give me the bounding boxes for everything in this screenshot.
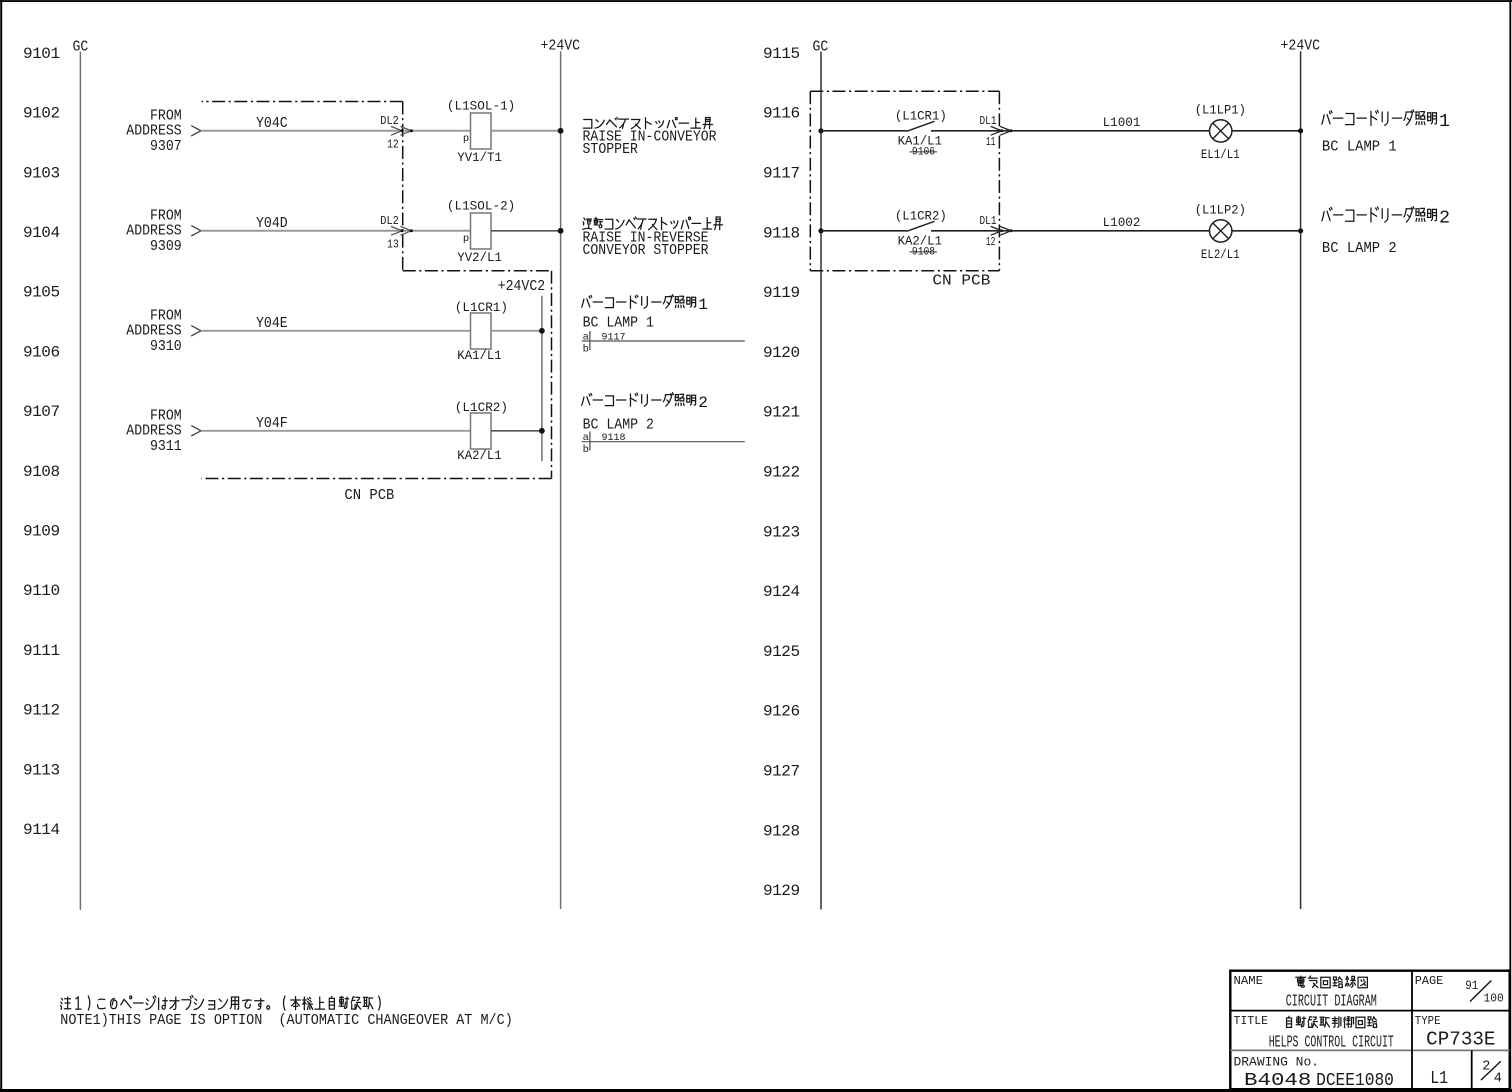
- svg-text:1: 1: [698, 296, 708, 314]
- svg-text:100: 100: [1484, 993, 1504, 1006]
- svg-text:CONVEYOR STOPPER: CONVEYOR STOPPER: [583, 242, 709, 259]
- svg-text:9307: 9307: [150, 138, 182, 155]
- svg-text:4: 4: [1494, 1072, 1502, 1087]
- pin DL1 11 connector crossing rung 9116: [980, 114, 1013, 149]
- svg-text:9112: 9112: [23, 702, 60, 720]
- lamp EL1/L1 (L1LP1): [1195, 104, 1246, 163]
- svg-text:91: 91: [1465, 978, 1478, 993]
- wire rung 9116 to +24VC rail: [1232, 130, 1300, 132]
- svg-text:BC LAMP 2: BC LAMP 2: [1322, 240, 1397, 257]
- svg-text:9103: 9103: [23, 164, 60, 182]
- dash-dot box CN PCB right: [810, 91, 999, 271]
- svg-text:9110: 9110: [23, 582, 60, 600]
- svg-text:9129: 9129: [763, 882, 800, 900]
- svg-text:9123: 9123: [763, 523, 800, 541]
- svg-text:DRAWING No.: DRAWING No.: [1234, 1055, 1320, 1069]
- svg-text:(L1LP2): (L1LP2): [1195, 204, 1246, 218]
- junction rung 9118 at +24VC rail: [1298, 228, 1303, 233]
- svg-text:1: 1: [1439, 111, 1450, 132]
- svg-text:9310: 9310: [150, 338, 182, 355]
- wire rung 9118 from GC rail: [821, 230, 907, 232]
- rail +24VC2: [541, 296, 543, 461]
- svg-text:+24VC2: +24VC2: [498, 278, 546, 295]
- svg-text:(L1CR2): (L1CR2): [895, 209, 947, 223]
- svg-text:Y04C: Y04C: [256, 115, 288, 132]
- svg-text:PAGE: PAGE: [1415, 974, 1444, 988]
- relay coil KA1/L1 (L1CR1): [455, 301, 508, 363]
- svg-text:9117: 9117: [763, 165, 800, 183]
- svg-text:9108: 9108: [912, 247, 935, 259]
- cross-reference BC LAMP 2 with contacts a 9118 b: [582, 393, 745, 456]
- svg-text:2: 2: [1439, 208, 1450, 229]
- svg-text:9124: 9124: [763, 583, 800, 601]
- wire Y04E rung 9106: [201, 315, 471, 332]
- title block NAME cell: CIRCUIT DIAGRAM: [1234, 974, 1377, 1011]
- svg-text:9121: 9121: [763, 404, 800, 422]
- rung 9106 FROM ADDRESS 9310 source arrow: [126, 307, 201, 355]
- svg-text:Y04E: Y04E: [256, 315, 288, 332]
- rail +24VC right: [1300, 51, 1302, 909]
- svg-text:13: 13: [387, 238, 399, 252]
- svg-text:DL1: DL1: [980, 214, 997, 228]
- svg-text:(L1SOL-1): (L1SOL-1): [447, 99, 515, 113]
- svg-text:9118: 9118: [763, 224, 800, 242]
- dash-dot boundary CN PCB left (staircase): [202, 102, 552, 479]
- svg-text:TITLE: TITLE: [1234, 1014, 1269, 1028]
- wire rung 9106 to +24VC2 rail: [491, 330, 542, 332]
- svg-text:9119: 9119: [763, 284, 800, 302]
- svg-text:STOPPER: STOPPER: [583, 141, 638, 158]
- svg-text:9113: 9113: [23, 761, 60, 779]
- svg-text:9128: 9128: [763, 822, 800, 840]
- rail GC left: [79, 52, 81, 910]
- svg-text:9106: 9106: [912, 147, 935, 159]
- svg-text:9115: 9115: [763, 45, 800, 63]
- svg-text:9111: 9111: [23, 642, 60, 660]
- svg-text:9120: 9120: [763, 344, 800, 362]
- svg-text:9102: 9102: [23, 105, 60, 123]
- svg-text:(L1CR2): (L1CR2): [455, 401, 508, 415]
- svg-text:9125: 9125: [763, 643, 800, 661]
- contact KA2/L1 (L1CR2) NO with reference 9108: [895, 209, 947, 258]
- junction rung 9118 at GC rail: [818, 228, 823, 233]
- junction rung 9116 at +24VC rail: [1298, 128, 1303, 133]
- pin DL2 12 connector crossing rung 9102: [380, 114, 413, 152]
- svg-text:KA2/L1: KA2/L1: [457, 449, 501, 463]
- solenoid YV1/T1 (L1SOL-1): [447, 99, 515, 164]
- svg-text:9104: 9104: [23, 224, 60, 242]
- svg-text:9127: 9127: [763, 763, 800, 781]
- svg-text:2: 2: [698, 394, 708, 412]
- svg-text:9311: 9311: [150, 438, 182, 455]
- svg-text:YV2/L1: YV2/L1: [457, 251, 502, 265]
- svg-text:DL2: DL2: [380, 114, 399, 128]
- svg-text:b: b: [583, 343, 589, 355]
- relay coil KA2/L1 (L1CR2): [455, 401, 508, 463]
- svg-text:9117: 9117: [602, 332, 626, 344]
- title block TYPE cell: CP733E: [1415, 1014, 1496, 1051]
- svg-text:DL2: DL2: [380, 214, 399, 228]
- svg-text:9109: 9109: [23, 523, 60, 541]
- junction rung 9106 at +24VC2 rail: [539, 328, 545, 334]
- svg-text:DL1: DL1: [980, 114, 997, 128]
- svg-text:KA1/L1: KA1/L1: [457, 349, 501, 363]
- junction rung 9116 at GC rail: [818, 128, 823, 133]
- junction rung 9102 at +24VC rail: [558, 128, 564, 134]
- wire rung 9104 to +24VC rail: [491, 230, 561, 232]
- svg-text:Y04D: Y04D: [256, 215, 288, 232]
- svg-text:L1001: L1001: [1103, 116, 1141, 130]
- svg-text:(L1SOL-2): (L1SOL-2): [447, 199, 515, 213]
- title block DRAWING No cell: B4048DCEE1080: [1234, 1055, 1394, 1091]
- svg-text:(L1CR1): (L1CR1): [455, 301, 508, 315]
- svg-text:BC LAMP 1: BC LAMP 1: [583, 314, 654, 331]
- wire rung 9102 to +24VC rail: [491, 130, 561, 132]
- rail +24VC left: [560, 51, 562, 909]
- svg-text:9101: 9101: [23, 45, 60, 63]
- left ladder row numbers 9101-9114: [23, 45, 60, 839]
- title block TITLE cell: HELPS CONTROL CIRCUIT: [1234, 1014, 1394, 1052]
- svg-text:CIRCUIT DIAGRAM: CIRCUIT DIAGRAM: [1286, 992, 1377, 1011]
- svg-text:9122: 9122: [763, 464, 800, 482]
- svg-text:EL1/L1: EL1/L1: [1201, 148, 1240, 162]
- junction rung 9107 at +24VC2 rail: [539, 428, 545, 434]
- svg-text:NOTE1)THIS PAGE IS OPTION (AU: NOTE1)THIS PAGE IS OPTION (AUTOMATIC CHA…: [60, 1012, 513, 1029]
- svg-text:12: 12: [387, 138, 399, 152]
- svg-text:CN PCB: CN PCB: [344, 487, 394, 504]
- svg-text:CP733E: CP733E: [1426, 1029, 1495, 1051]
- svg-text:12: 12: [986, 235, 996, 249]
- rung 9107 FROM ADDRESS 9311 source arrow: [126, 407, 201, 455]
- contact KA1/L1 (L1CR1) NO with reference 9106: [895, 109, 947, 158]
- rung 9104 FROM ADDRESS 9309 source arrow: [126, 207, 201, 255]
- svg-text:BC LAMP 1: BC LAMP 1: [1322, 138, 1397, 155]
- wire rung 9118 to +24VC rail: [1232, 230, 1300, 232]
- note 1 text japanese: [61, 995, 381, 1010]
- svg-text:EL2/L1: EL2/L1: [1201, 248, 1240, 262]
- wire Y04C rung 9102: [201, 115, 471, 132]
- svg-text:p: p: [463, 233, 469, 245]
- svg-text:L1: L1: [1430, 1069, 1448, 1089]
- svg-text:b: b: [583, 444, 589, 456]
- title block outline: [1230, 971, 1509, 1089]
- wire L1001 rung 9116: [931, 116, 1209, 131]
- annotation RAISE IN-CONVEYOR STOPPER: [583, 118, 717, 159]
- svg-text:p: p: [463, 133, 469, 145]
- svg-text:NAME: NAME: [1234, 974, 1264, 988]
- junction rung 9104 at +24VC rail: [558, 228, 564, 234]
- svg-text:TYPE: TYPE: [1415, 1014, 1441, 1028]
- wire Y04F rung 9107: [201, 415, 471, 432]
- svg-text:9114: 9114: [23, 821, 60, 839]
- svg-text:a: a: [583, 332, 589, 344]
- rung 9102 FROM ADDRESS 9307 source arrow: [126, 107, 201, 155]
- svg-text:9106: 9106: [23, 343, 60, 361]
- wire Y04D rung 9104: [201, 215, 471, 232]
- wire rung 9107 to +24VC2 rail: [491, 430, 542, 432]
- wire rung 9116 from GC rail: [821, 130, 907, 132]
- right ladder row numbers 9115-9129: [763, 45, 800, 900]
- wire L1002 rung 9118: [931, 216, 1209, 231]
- svg-text:HELPS CONTROL CIRCUIT: HELPS CONTROL CIRCUIT: [1269, 1032, 1394, 1051]
- title block PAGE cell: 91/100: [1415, 974, 1504, 1006]
- svg-text:L1002: L1002: [1103, 216, 1141, 230]
- annotation BC LAMP 2 right: [1322, 207, 1450, 257]
- rail GC right: [820, 52, 822, 910]
- pin DL1 12 connector crossing rung 9118: [980, 214, 1013, 249]
- svg-text:11: 11: [986, 135, 996, 149]
- cross-reference BC LAMP 1 with contacts a 9117 b: [582, 295, 745, 356]
- svg-text:DCEE1080: DCEE1080: [1316, 1071, 1394, 1091]
- lamp EL2/L1 (L1LP2): [1195, 204, 1246, 263]
- svg-text:B4048: B4048: [1244, 1071, 1311, 1091]
- svg-text:9126: 9126: [763, 703, 800, 721]
- svg-text:BC LAMP 2: BC LAMP 2: [583, 417, 654, 434]
- svg-text:(L1LP1): (L1LP1): [1195, 104, 1246, 118]
- annotation BC LAMP 1 right: [1322, 110, 1450, 156]
- pin DL2 13 connector crossing rung 9104: [380, 214, 413, 252]
- solenoid YV2/L1 (L1SOL-2): [447, 199, 515, 264]
- svg-text:9309: 9309: [150, 238, 182, 255]
- svg-text:9105: 9105: [23, 284, 60, 302]
- title block sheet cell: L1 2/4: [1430, 1059, 1502, 1089]
- svg-text:9108: 9108: [23, 463, 60, 481]
- svg-text:(L1CR1): (L1CR1): [895, 109, 947, 123]
- svg-text:9107: 9107: [23, 403, 60, 421]
- svg-text:YV1/T1: YV1/T1: [457, 151, 502, 165]
- svg-text:Y04F: Y04F: [256, 415, 288, 432]
- annotation RAISE IN-REVERSE CONVEYOR STOPPER: [583, 217, 723, 259]
- svg-text:CN PCB: CN PCB: [932, 272, 990, 289]
- svg-text:9116: 9116: [763, 105, 800, 123]
